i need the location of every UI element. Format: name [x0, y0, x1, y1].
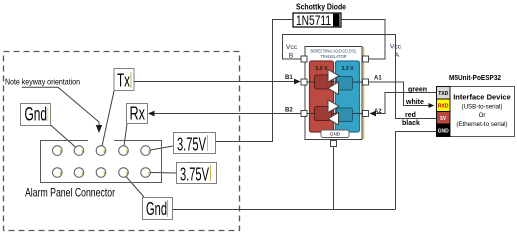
svg-text:5.0 V: 5.0 V [315, 66, 328, 72]
wire TXD to A2 (green) [376, 93, 437, 114]
wire ground bus riser to GND cell [396, 132, 437, 210]
pin TXD [437, 87, 451, 100]
svg-text:RXD: RXD [438, 104, 449, 110]
svg-text:TRANSLATOR: TRANSLATOR [321, 54, 348, 59]
pin 5 [141, 146, 151, 156]
pin GND (chip bottom) [331, 141, 337, 147]
buffer channel 2 A to B [328, 113, 339, 126]
wire A1 to RXD (white) [369, 82, 429, 106]
svg-text:Or: Or [479, 112, 486, 119]
pin B2 [301, 111, 307, 117]
pin 8 [96, 168, 106, 178]
svg-text:B: B [289, 53, 294, 60]
channel 2 driver cell (5V side) [315, 107, 332, 121]
wire chip GND to ground bus [333, 147, 335, 210]
svg-text:3.75V: 3.75V [177, 135, 206, 155]
svg-text:GND: GND [438, 129, 450, 135]
node 3.75V (upper) [174, 133, 216, 155]
svg-text:green: green [408, 87, 427, 94]
Interface Device text [453, 93, 511, 129]
svg-text:(USB-to-serial): (USB-to-serial) [462, 104, 503, 111]
svg-text:Alarm Panel Connector: Alarm Panel Connector [25, 186, 115, 200]
node Tx [114, 69, 134, 91]
wire channel 2 internal [307, 113, 362, 115]
svg-text:red: red [405, 112, 416, 119]
pin highlight ticks [60, 150, 62, 153]
wire Rx leader to pin 4 [124, 124, 127, 146]
svg-text:black: black [402, 120, 420, 127]
svg-text:(Ethernet-to serial): (Ethernet-to serial) [456, 121, 507, 128]
svg-text:A: A [395, 52, 400, 59]
chip U1 bidirectional voltage level translator body [305, 47, 364, 140]
pin 2 [74, 146, 84, 156]
channel 1 driver cell (5V side) [315, 75, 332, 89]
module M5Unit-PoESP32 body [437, 87, 515, 137]
3.3V rail block [336, 61, 360, 132]
wire channel 1 internal [307, 81, 362, 83]
wire Tx leader to pin 3 [102, 91, 114, 146]
wire Gnd leader to pin 9 [126, 177, 144, 198]
buffer channel 2 B to A [328, 100, 339, 113]
pin A1 [363, 79, 369, 85]
svg-text:Gnd: Gnd [25, 105, 48, 126]
wire B2 to Rx [153, 113, 301, 115]
svg-text:Vcc: Vcc [390, 44, 402, 51]
keyway leader arrow [22, 87, 99, 126]
pin 9 [119, 168, 129, 178]
channel 1 driver cell (3.3V side) [337, 77, 353, 91]
svg-text:TXD: TXD [438, 91, 448, 97]
pin B1 [301, 79, 307, 85]
svg-text:Gnd: Gnd [146, 199, 167, 219]
pin 6 [53, 168, 63, 178]
wire Tx to B1 [134, 81, 296, 83]
wire 3.75V leader to pin 5 [151, 146, 174, 150]
svg-text:3.75V: 3.75V [180, 165, 209, 185]
pin 1 [53, 146, 63, 156]
svg-text:Schottky Diode: Schottky Diode [296, 3, 346, 12]
node Rx [127, 104, 148, 124]
pin 4 [119, 146, 129, 156]
channel 2 driver cell (3.3V side) [337, 108, 353, 122]
wire ground bus [173, 209, 396, 211]
svg-text:A1: A1 [374, 76, 382, 82]
svg-text:B2: B2 [285, 108, 293, 114]
svg-text:3.3 V: 3.3 V [341, 66, 354, 72]
pin Vcc B [301, 56, 307, 62]
pin 10 [141, 168, 151, 178]
buffer channel 1 B to A [328, 70, 339, 83]
node Gnd (panel top) [21, 104, 51, 126]
svg-text:Note keyway orientation: Note keyway orientation [5, 77, 80, 87]
wire 3.75V leader to pin 10 [151, 172, 177, 175]
pin 3 [96, 146, 106, 156]
svg-text:B1: B1 [285, 75, 293, 81]
connector J1 outline with keyway gap [41, 141, 162, 183]
svg-text:Interface Device: Interface Device [453, 93, 511, 102]
wire diode cathode to Vcc A [341, 20, 385, 60]
svg-text:5V: 5V [440, 116, 447, 122]
wire 3.75V to diode anode and Vcc feed [216, 20, 294, 142]
pin RXD [437, 99, 451, 112]
pin 7 [74, 168, 84, 178]
buffer channel 1 A to B [328, 82, 339, 95]
node Gnd (panel bottom) [143, 198, 173, 220]
wire diode anode stub [273, 19, 294, 21]
5.0V rail block [310, 61, 334, 132]
wire 5V (red) to Vcc B [283, 35, 437, 119]
svg-text:GND: GND [330, 132, 341, 137]
node 3.75V (lower) [177, 163, 217, 185]
pin GND [437, 124, 451, 137]
pin 5V [437, 112, 451, 125]
diode D1 1N5711 [293, 12, 341, 28]
pin A2 [363, 111, 369, 117]
svg-text:Vcc: Vcc [286, 44, 298, 51]
alarm panel dashed enclosure [4, 52, 240, 231]
svg-text:M5Unit-PoESP32: M5Unit-PoESP32 [449, 75, 501, 82]
svg-text:Tx: Tx [117, 71, 130, 91]
svg-text:BIDIRECTIONAL VOLTAGE LEVEL: BIDIRECTIONAL VOLTAGE LEVEL [311, 49, 357, 54]
pin Vcc A [363, 56, 369, 62]
svg-text:1N5711: 1N5711 [296, 12, 331, 28]
svg-text:white: white [405, 99, 424, 106]
chip GND label [321, 130, 349, 138]
wire Gnd leader to pin 2 [51, 125, 77, 148]
svg-text:Rx: Rx [130, 104, 146, 124]
